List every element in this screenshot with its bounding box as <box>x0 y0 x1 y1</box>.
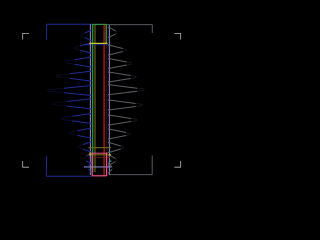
bottom flange yellow dash right <box>106 152 108 154</box>
teal dot <box>110 160 112 162</box>
blue shed tip (61.2,118.5) <box>61 114 90 124</box>
viewport bracket top-left <box>23 33 29 39</box>
blue shed tip (81.2,35.4) <box>81 31 90 41</box>
gray bottom-right stub <box>151 156 153 175</box>
viewport bracket bottom-left <box>23 161 29 167</box>
blue shed tip (52.8,103.8) <box>53 99 91 109</box>
gray shed tip (123.5,147.5) <box>109 143 123 153</box>
periwinkle left base vertical <box>89 24 91 175</box>
periwinkle crossing line bottom <box>84 166 112 168</box>
gray shed tip (130,134) <box>109 129 130 139</box>
viewport bracket top-right <box>174 33 180 39</box>
blue shed tip (69.7,133.1) <box>70 128 91 138</box>
green cap/core left vertical <box>92 24 94 172</box>
blue top-left stub <box>46 24 48 40</box>
top cap green right vertical <box>105 24 107 43</box>
blue shed tip (78.5,146.9) <box>79 142 91 152</box>
gray shed tip (112.5,168) <box>109 164 112 172</box>
pink box bottom horizontal <box>92 175 106 177</box>
gray base tabs <box>108 27 109 28</box>
blue shed tip (47.7,90.5) <box>48 86 91 96</box>
blue shed tip (83.5,158.5) <box>84 154 91 164</box>
bottom flange yellow dash lower right <box>109 154 111 156</box>
pink box right vertical <box>106 153 108 176</box>
gray shed tip (142,105) <box>109 100 142 110</box>
gray top-right stub <box>151 25 153 33</box>
blue shed tip (57.2,76.1) <box>57 71 90 81</box>
blue crossing line below top cap <box>83 44 110 46</box>
top cap yellow bottom line <box>89 42 107 44</box>
bottom flange maroon line <box>92 156 111 158</box>
gray shed tip (117,160) <box>109 155 117 165</box>
pink box left vertical <box>91 153 93 176</box>
gray shed tip (136,77) <box>109 72 136 82</box>
gray shed tip (144,89.7) <box>109 85 144 95</box>
gray shed tip (126,50) <box>109 45 126 55</box>
blue bottom-left stub <box>45 156 47 176</box>
red core line <box>103 25 105 176</box>
gray shed tip (117,32.4) <box>109 28 117 38</box>
gray shed tip (131,63.5) <box>109 59 131 69</box>
viewport bracket bottom-right <box>174 161 180 167</box>
blue top horizontal line <box>47 23 93 25</box>
blue shed tip (74.3,48.0) <box>74 43 90 53</box>
blue bottom horizontal line <box>46 175 92 177</box>
blue base tabs <box>90 30 91 31</box>
bottom flange olive upper line <box>89 147 112 149</box>
bottom flange olive lower line <box>89 154 112 156</box>
periwinkle right base vertical <box>108 25 110 175</box>
blue shed tip (65.6,62.0) <box>66 57 91 67</box>
top cap green top horizontal <box>92 23 107 25</box>
gray top horizontal line <box>106 24 153 26</box>
bottom flange yellow dash lower left <box>89 154 91 156</box>
bottom flange pink line <box>92 152 107 154</box>
blue shed tip (87.4,167.3) <box>87 164 90 172</box>
gray bottom horizontal line <box>109 174 152 176</box>
gray shed tip (136.5,120) <box>109 115 136 125</box>
black page background <box>0 0 200 200</box>
olive core rod line <box>94 25 96 173</box>
dark brown core line x=106.8 <box>106 26 108 153</box>
bottom flange yellow dash left <box>89 152 91 154</box>
